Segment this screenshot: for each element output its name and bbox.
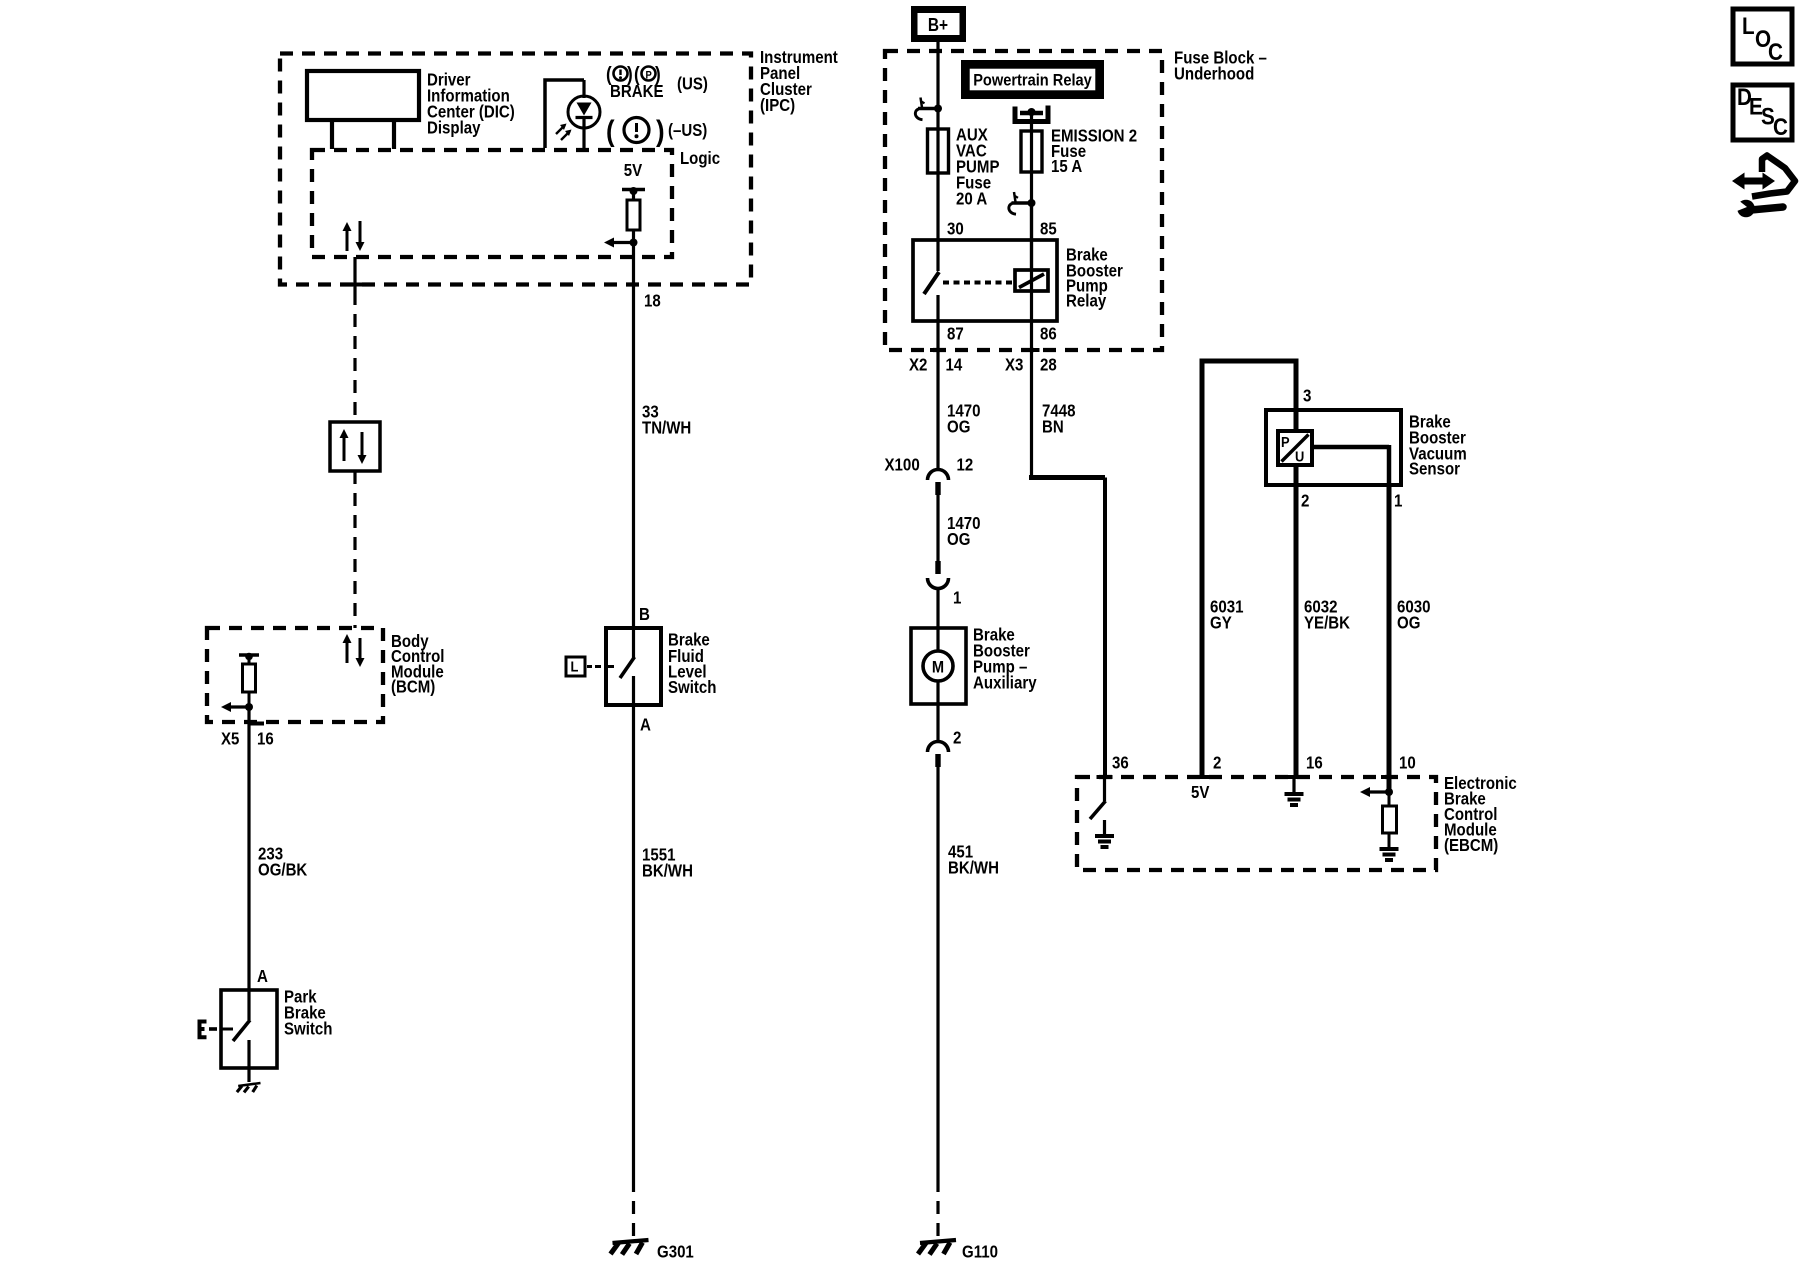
svg-text:20 A: 20 A (956, 189, 988, 209)
svg-text:2: 2 (953, 728, 962, 748)
sensor internal link pin1 (1294, 410, 1299, 431)
EBCM pin 36: switch to ground (1097, 775, 1113, 779)
svg-text:36: 36 (1112, 753, 1129, 773)
svg-text:G301: G301 (657, 1242, 694, 1262)
wire: emission fuse feed (1030, 112, 1033, 271)
hook: other-circuit tap at B+ feed (918, 107, 938, 110)
module box: Fuse Block - Underhood (885, 51, 1162, 350)
svg-text:Relay: Relay (1066, 291, 1106, 311)
svg-text:): ) (656, 115, 665, 148)
hook: other-circuit tap below emission fuse (1012, 201, 1032, 204)
wire: IPC pin 18 down to fluid switch pin B (632, 243, 635, 629)
relay actuation dashed link (943, 281, 1014, 285)
svg-text:(BCM): (BCM) (391, 677, 435, 697)
svg-text:85: 85 (1040, 219, 1057, 239)
module box: Logic dashed outline inside IPC (312, 150, 672, 257)
wire: B+ to relay pin 30 (936, 42, 939, 271)
resistor R3 in EBCM (1388, 792, 1391, 806)
svg-text:12: 12 (957, 455, 974, 475)
svg-text:15 A: 15 A (1051, 156, 1083, 176)
wire: sensor 1 to EBCM 10 (6030 OG) (1387, 485, 1392, 792)
EBCM pin 10: pull-up resistor to ground (1381, 775, 1397, 779)
EBCM pin 2: 5V supply (1195, 775, 1211, 779)
svg-text:86: 86 (1040, 324, 1057, 344)
svg-text:B+: B+ (928, 15, 948, 35)
svg-text:Auxiliary: Auxiliary (973, 673, 1037, 693)
ground G110 (920, 1240, 956, 1243)
svg-text:GY: GY (1210, 613, 1232, 633)
svg-text:X3: X3 (1005, 355, 1024, 375)
svg-text:16: 16 (1306, 753, 1323, 773)
ground symbol inside EBCM pin 36 (1095, 834, 1114, 838)
svg-text:TN/WH: TN/WH (642, 418, 691, 438)
svg-text:Powertrain Relay: Powertrain Relay (973, 71, 1092, 90)
svg-text:BK/WH: BK/WH (642, 861, 693, 881)
svg-text:OG: OG (947, 529, 970, 549)
svg-text:L: L (1742, 13, 1755, 40)
relay switch blade (924, 272, 939, 294)
module box: Instrument Panel Cluster (IPC) dashed outline (280, 54, 751, 285)
svg-text:YE/BK: YE/BK (1304, 613, 1350, 633)
wire: pump to G110 (451 BK/WH) (936, 767, 939, 1179)
symbol: serial data link box with arrows (330, 422, 380, 471)
resistor R2 in BCM with supply bar (239, 653, 259, 657)
svg-text:1: 1 (953, 588, 962, 608)
svg-text:G110: G110 (962, 1242, 998, 1262)
boundary ticks at fuse block exit (930, 348, 946, 352)
svg-text:5V: 5V (624, 160, 643, 180)
svg-text:OG: OG (1397, 613, 1420, 633)
svg-text:Sensor: Sensor (1409, 459, 1460, 479)
module box: Body Control Module (BCM) (207, 628, 383, 722)
svg-text:C: C (1768, 39, 1783, 66)
serial data arrows inside Logic box (346, 230, 349, 251)
svg-text:(–US): (–US) (668, 120, 707, 140)
relay K1: Brake Booster Pump Relay box (913, 240, 1057, 321)
ground: park brake switch chassis ground (238, 1083, 260, 1086)
switch S1: Park Brake Switch (221, 990, 277, 1068)
svg-text:M: M (932, 658, 944, 677)
inline connector pin 1 (935, 561, 940, 574)
svg-text:1: 1 (1394, 491, 1403, 511)
wire: sensor 2 to EBCM 16 (6032 YE/BK) (1294, 465, 1299, 777)
svg-text:C: C (1773, 114, 1788, 141)
connector terminals for EMISSION 2 fuse (1015, 106, 1048, 122)
svg-text:X100: X100 (885, 455, 920, 475)
svg-text:OG: OG (947, 417, 970, 437)
wire: relay 86 to EBCM 36 (7448 BN) (1030, 203, 1033, 478)
motor M1: Brake Booster Pump - Auxiliary (911, 628, 966, 704)
svg-text:16: 16 (257, 729, 274, 749)
svg-text:X2: X2 (909, 355, 928, 375)
resistor R1: IPC pull-up (627, 200, 640, 230)
pin E with dash (198, 1020, 207, 1039)
icon: diagnostic arrows + wrench (1752, 156, 1795, 197)
relay coil box (1015, 270, 1048, 291)
svg-text:(US): (US) (677, 74, 708, 94)
label box: Powertrain Relay (961, 60, 1104, 99)
svg-text:P: P (1281, 434, 1290, 451)
fuse F1: AUX VAC PUMP Fuse 20 A (928, 129, 949, 173)
wire: BCM pin 16 (X5) to park brake switch pin A (247, 707, 250, 990)
svg-text:OG/BK: OG/BK (258, 860, 308, 880)
svg-text:14: 14 (946, 355, 963, 375)
ground G301 (613, 1240, 649, 1243)
junction + signal arrow into logic (630, 239, 638, 247)
svg-text:2: 2 (1213, 753, 1222, 773)
wire: fluid switch pin A to G301 (632, 705, 635, 1179)
sensor B1: Brake Booster Vacuum Sensor (1266, 410, 1401, 485)
pressure transducer P/U symbol (1278, 431, 1312, 465)
svg-text:Switch: Switch (284, 1019, 333, 1039)
svg-text:X5: X5 (221, 729, 240, 749)
svg-text:P: P (646, 70, 652, 82)
svg-text:Underhood: Underhood (1174, 64, 1254, 84)
junction + arrow BCM output (245, 703, 253, 711)
svg-text:(EBCM): (EBCM) (1444, 835, 1498, 855)
svg-text:87: 87 (947, 324, 964, 344)
svg-text:A: A (640, 715, 651, 735)
wire: relay pin 87 down (936, 295, 939, 469)
svg-text:30: 30 (947, 219, 964, 239)
svg-text:BN: BN (1042, 417, 1064, 437)
svg-text:BRAKE: BRAKE (610, 81, 664, 101)
wire into motor (936, 588, 939, 652)
icon: LOC reference box (1733, 9, 1792, 64)
svg-text:BK/WH: BK/WH (948, 858, 999, 878)
switch S2: Brake Fluid Level Switch (606, 628, 661, 705)
module box: Electronic Brake Control Module (EBCM) (1077, 777, 1436, 870)
svg-text:(IPC): (IPC) (760, 95, 795, 115)
connector X100 pin 12 inline (928, 470, 949, 481)
svg-text:U: U (1295, 449, 1304, 466)
svg-text:B: B (639, 604, 650, 624)
svg-text:5V: 5V (1191, 782, 1210, 802)
icon: DESC reference box (1733, 85, 1792, 140)
svg-text:Display: Display (427, 118, 481, 138)
wire: EBCM 2 to sensor 3 (6031 GY) (1202, 361, 1296, 777)
svg-text:2: 2 (1301, 491, 1310, 511)
svg-text:18: 18 (644, 291, 661, 311)
wire out of motor (936, 681, 939, 742)
EBCM pin 16: signal ground (1286, 775, 1302, 779)
serial data arrows inside BCM (346, 642, 349, 663)
power feed B+ (911, 6, 966, 42)
svg-text:(: ( (606, 115, 615, 148)
svg-text:Switch: Switch (668, 677, 717, 697)
svg-text:28: 28 (1040, 355, 1057, 375)
svg-text:3: 3 (1303, 386, 1312, 406)
wire: resistor to junction (632, 230, 635, 243)
wire: X100 to pump connector (936, 495, 939, 561)
wire: serial data IPC to BCM (dashed) (353, 257, 356, 292)
svg-text:L: L (571, 659, 579, 676)
svg-text:Logic: Logic (680, 148, 720, 168)
svg-text:10: 10 (1399, 753, 1416, 773)
display D1: Driver Information Center (DIC) Display (307, 71, 419, 120)
fuse F2: EMISSION 2 Fuse 15 A (1021, 131, 1042, 172)
indicator LED DS1: brake warning lamp (545, 80, 584, 148)
symbol: L level sensor box (566, 657, 585, 676)
svg-text:A: A (257, 966, 268, 986)
LED light arrows (556, 125, 565, 134)
